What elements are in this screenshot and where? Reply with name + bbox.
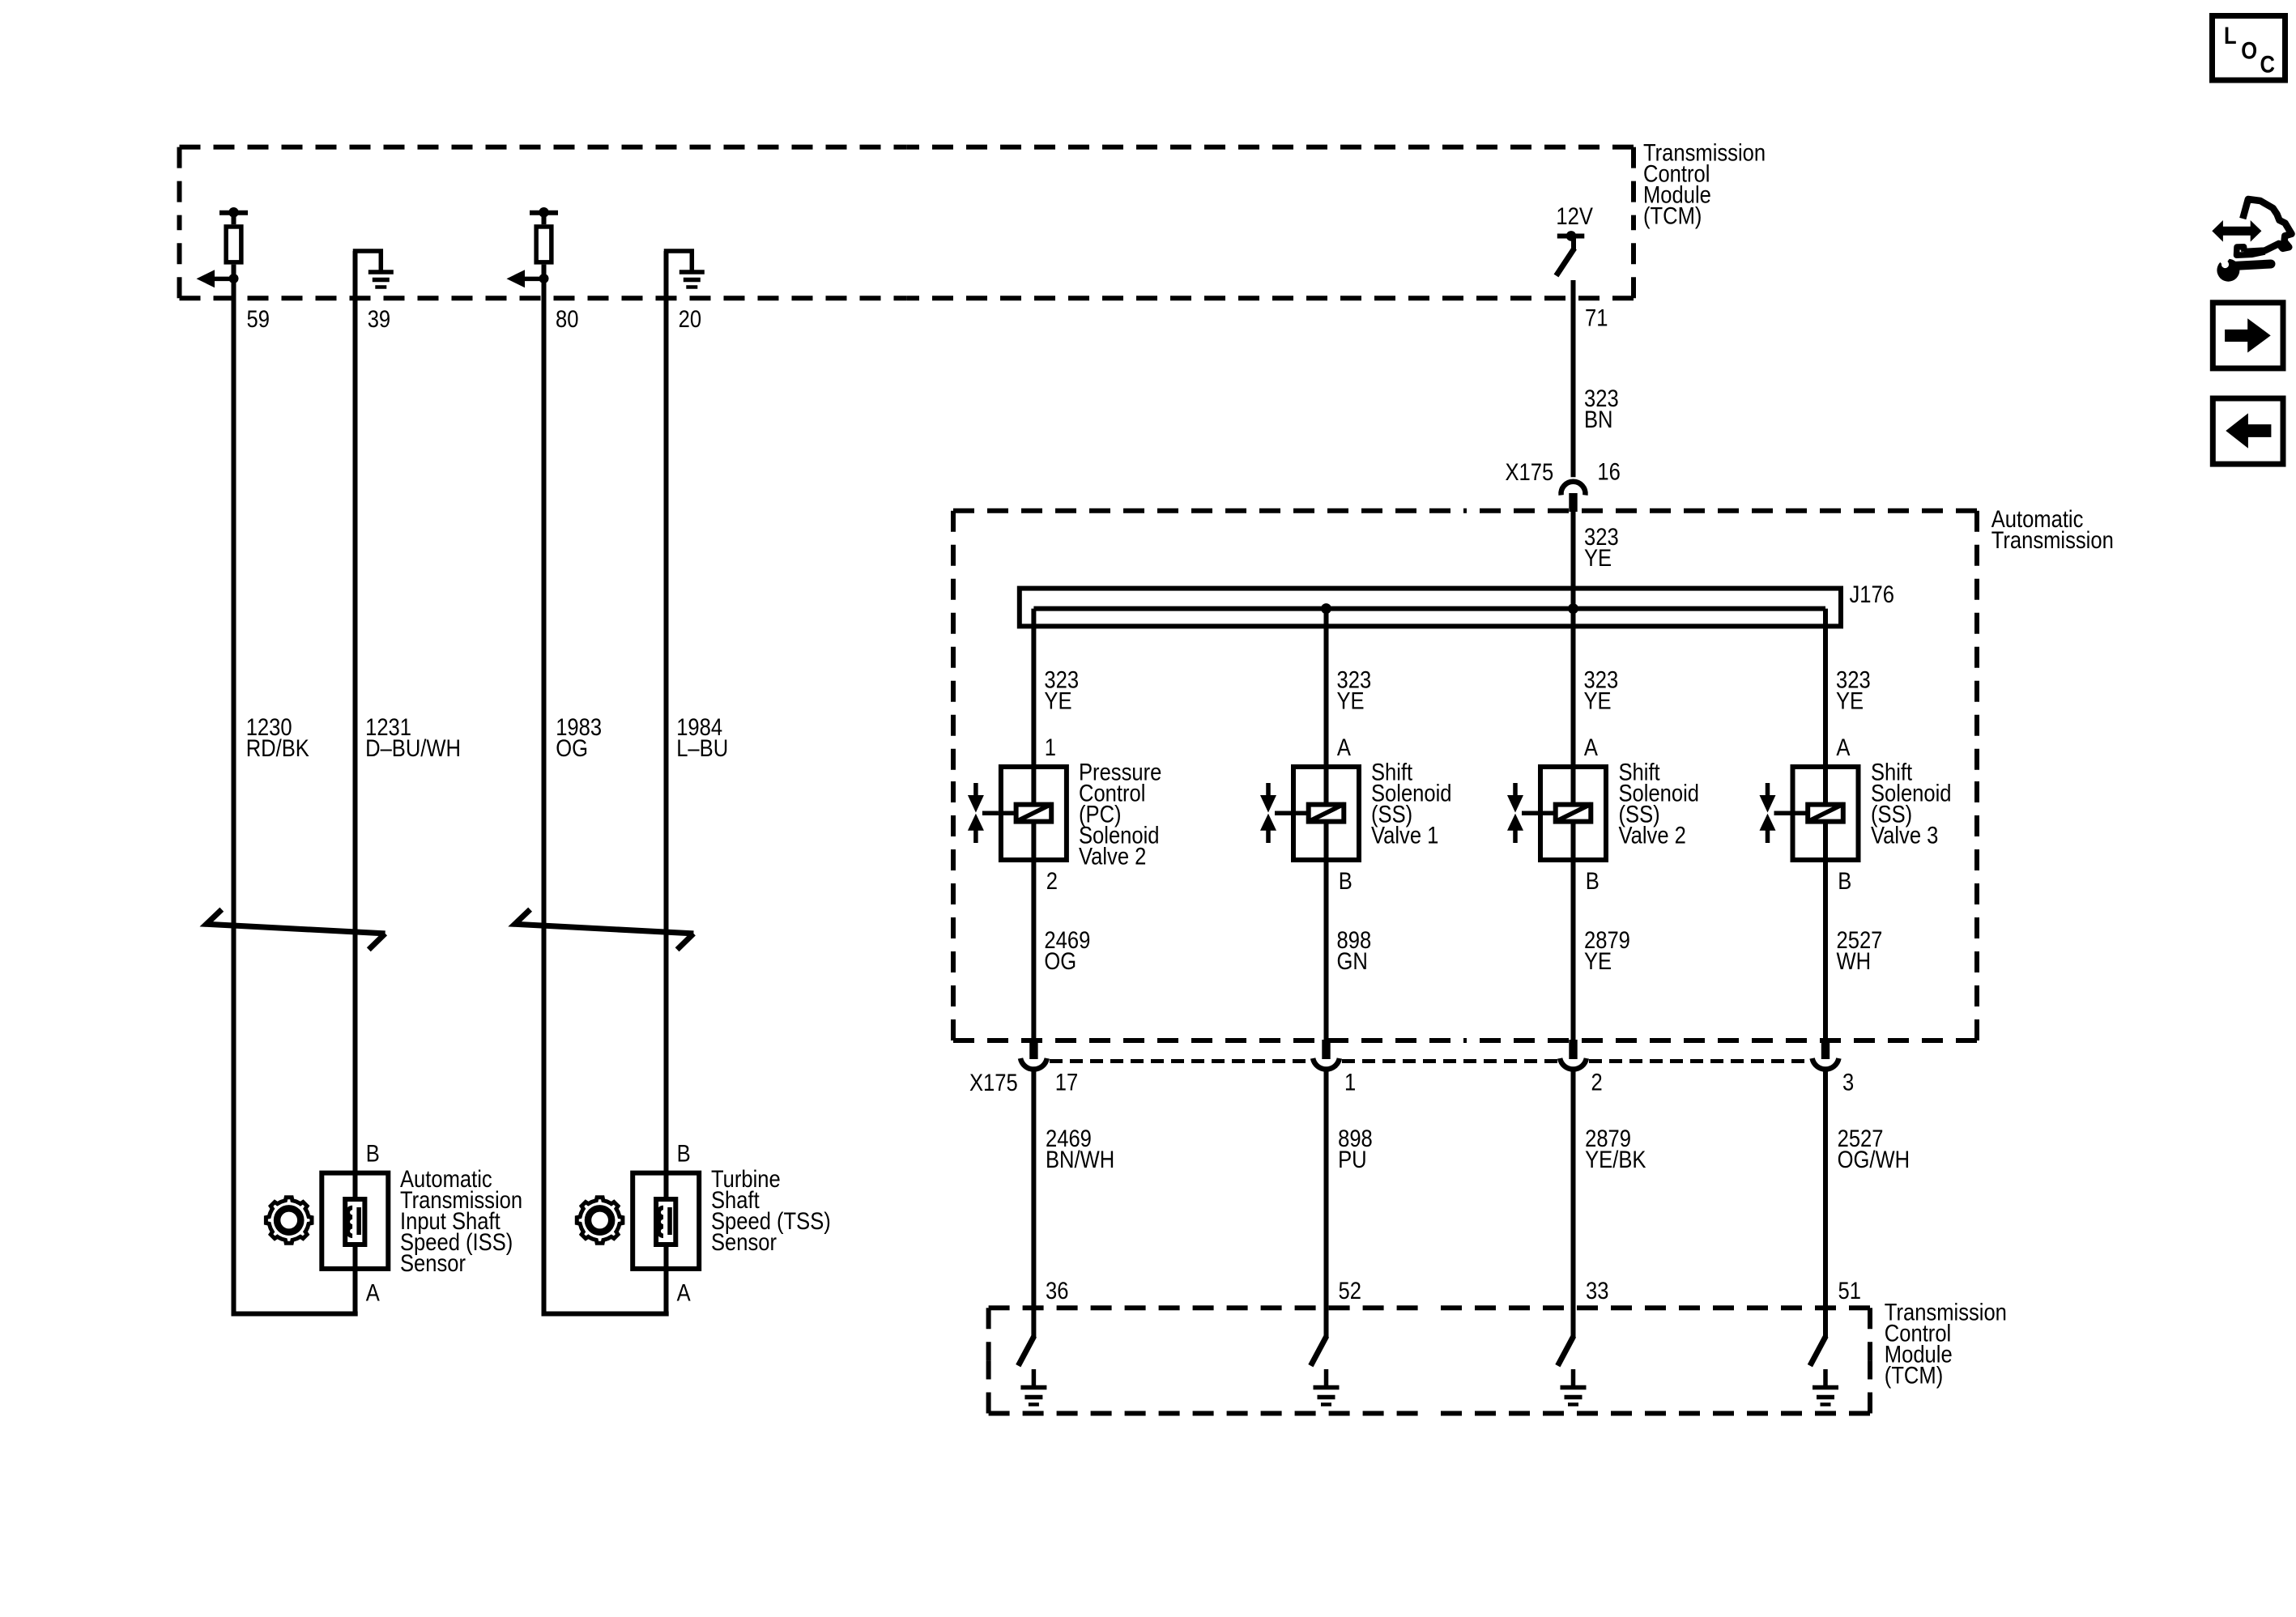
- wire label 1231 D-BU/WH: [365, 713, 461, 761]
- wire label 1983 OG: [556, 713, 602, 761]
- solenoid SS2 body: [1540, 767, 1606, 860]
- pin A SS2: [1584, 734, 1599, 761]
- pin 80: [556, 306, 578, 333]
- ground G-pin20 bar3: [686, 285, 697, 289]
- wire 323 YE drop SS3: [1823, 609, 1828, 1040]
- valve SS3 arrow stem bottom: [1766, 830, 1770, 843]
- solenoid PC-sol coil box: [1016, 805, 1052, 822]
- wire label 323 YE PC-sol: [1044, 666, 1079, 714]
- solenoid SS1 coil box: [1309, 805, 1344, 822]
- connector line X175 a: [1050, 1059, 1310, 1063]
- sensor TSS element box: [656, 1199, 675, 1245]
- solenoid SS3 coil stub: [1791, 811, 1806, 815]
- splice J176 bus: [1033, 606, 1825, 611]
- wire label 1230 RD/BK: [246, 713, 310, 761]
- wire label 2469 BN/WH: [1046, 1126, 1114, 1173]
- sensor TSS body: [633, 1173, 699, 1269]
- svg-text:A: A: [1836, 734, 1851, 761]
- pin A SS1: [1337, 734, 1352, 761]
- ground stem LS3: [1571, 1369, 1576, 1386]
- label SS2: [1619, 759, 1700, 849]
- ground stem LS1: [1032, 1369, 1037, 1386]
- sensor ISS core bar: [356, 1207, 361, 1235]
- solenoid PC-sol coil stub: [999, 811, 1014, 815]
- node 12V: [1556, 202, 1593, 229]
- svg-text:B: B: [1339, 867, 1352, 894]
- sensor ISS gear: [266, 1198, 312, 1244]
- svg-text:71: 71: [1585, 304, 1608, 331]
- pin 2 PC-sol: [1046, 867, 1058, 894]
- wire label 323 YE (feed): [1584, 523, 1619, 571]
- switch S1 stub: [1571, 238, 1576, 250]
- ground LS4 bar1: [1813, 1385, 1838, 1390]
- valve SS3 arrow down: [1760, 795, 1776, 813]
- pin 71: [1585, 304, 1608, 331]
- svg-text:33: 33: [1586, 1278, 1608, 1304]
- ground LS2 bar3: [1321, 1402, 1331, 1406]
- Automatic Transmission module outline: [953, 509, 1465, 513]
- ground LS4 bar2: [1817, 1395, 1834, 1400]
- switch S1 terminal bar: [1557, 234, 1585, 239]
- icon LOC: [2213, 16, 2285, 81]
- sensor ISS coil: [347, 1207, 352, 1236]
- pin 17: [1055, 1069, 1078, 1096]
- resistor R-pin80 top rail: [530, 211, 558, 215]
- wire 898 PU: [1324, 1070, 1329, 1338]
- solenoid SS3 coil box: [1808, 805, 1843, 822]
- wire 2527 OG/WH: [1823, 1070, 1828, 1338]
- svg-text:1: 1: [1344, 1069, 1356, 1096]
- wire label 2879 YE/BK: [1585, 1126, 1646, 1173]
- wire R-pin59 arrow stub: [215, 277, 234, 282]
- valve PC-sol arrow stem top: [973, 783, 978, 796]
- svg-text:O: O: [2241, 37, 2257, 64]
- valve SS2 link: [1522, 811, 1538, 815]
- label SS3: [1871, 759, 1952, 849]
- solenoid PC-sol body: [1001, 767, 1067, 860]
- sensor ISS body: [322, 1173, 388, 1269]
- connector arc X175-17: [1020, 1058, 1047, 1070]
- valve PC-sol arrow down: [968, 795, 984, 813]
- pin 39: [368, 306, 390, 333]
- pin A SS3: [1836, 734, 1851, 761]
- solenoid PC-sol coil diagonal: [1016, 804, 1052, 822]
- icon arrow next: [2213, 303, 2283, 368]
- switch S1 blade: [1557, 249, 1575, 276]
- solenoid SS1 body: [1293, 767, 1359, 860]
- ground G-pin39 bar2: [373, 278, 390, 283]
- pin 33: [1586, 1278, 1608, 1304]
- wire label 2879 YE: [1584, 927, 1630, 975]
- wire label 898 PU: [1338, 1126, 1373, 1173]
- wire label 2527 WH: [1837, 927, 1883, 975]
- TCM module outline (top): [180, 145, 907, 150]
- pin 3: [1842, 1069, 1854, 1096]
- valve SS2 arrow down: [1507, 795, 1523, 813]
- wire R-pin80 resistor top stub: [542, 213, 547, 225]
- wire label 323 YE SS1: [1337, 666, 1372, 714]
- ground LS1 bar2: [1024, 1395, 1042, 1400]
- svg-text:17: 17: [1055, 1069, 1078, 1096]
- junction R-pin59: [229, 274, 239, 283]
- valve PC-sol arrow stem bottom: [973, 830, 978, 843]
- svg-text:59: 59: [247, 306, 270, 333]
- switch S1 terminal dot: [1566, 231, 1577, 241]
- svg-text:16: 16: [1597, 458, 1620, 485]
- junction J176 tap 3: [1568, 603, 1578, 614]
- svg-text:39: 39: [368, 306, 390, 333]
- valve SS3 arrow up: [1760, 814, 1776, 831]
- connector pin X175-2: [1569, 1040, 1577, 1059]
- valve SS2 arrow up: [1507, 814, 1523, 831]
- connector pin X175-3: [1821, 1040, 1830, 1059]
- svg-text:898GN: 898GN: [1337, 927, 1372, 975]
- svg-text:20: 20: [679, 306, 701, 333]
- connector line X175 c: [1589, 1059, 1810, 1063]
- pin 20: [679, 306, 701, 333]
- wire TSS high side: [664, 251, 669, 1314]
- wire 323 BN (pin71 to X175): [1571, 280, 1576, 477]
- solenoid SS3 coil diagonal: [1808, 804, 1844, 822]
- ground LS1 bar3: [1029, 1402, 1039, 1406]
- icon arrow previous: [2213, 398, 2283, 464]
- node dot R-pin80 top: [539, 207, 549, 218]
- resistor R-pin59 top rail: [219, 211, 248, 215]
- signal arrow R-pin80: [507, 270, 526, 287]
- wire R-pin80 resistor bottom stub: [542, 265, 547, 279]
- svg-text:B: B: [1838, 867, 1851, 894]
- splice pack J176 outline: [1020, 589, 1841, 627]
- icon harness service: [2212, 220, 2261, 242]
- wire label 898 GN: [1337, 927, 1372, 975]
- wire 323 YE drop PC-sol: [1031, 609, 1036, 1040]
- svg-text:A: A: [677, 1279, 692, 1306]
- pin 59: [247, 306, 270, 333]
- svg-text:36: 36: [1046, 1278, 1068, 1304]
- svg-text:A: A: [1337, 734, 1352, 761]
- svg-text:1: 1: [1045, 734, 1056, 761]
- sensor TSS core bar: [667, 1207, 672, 1235]
- resistor R-pin80 body: [536, 227, 552, 262]
- label J176: [1850, 581, 1894, 607]
- sensor TSS gear: [577, 1198, 623, 1244]
- ground G-pin20 bar1: [679, 270, 705, 274]
- ground G-pin39 bar3: [375, 285, 386, 289]
- svg-text:2: 2: [1591, 1069, 1603, 1096]
- pin B ISS: [366, 1140, 380, 1167]
- svg-text:J176: J176: [1850, 581, 1894, 607]
- switch LS2 blade: [1310, 1336, 1327, 1366]
- valve SS3 link: [1774, 811, 1791, 815]
- valve SS1 arrow stem bottom: [1266, 830, 1271, 843]
- label PC-sol: [1079, 759, 1161, 870]
- svg-text:B: B: [677, 1140, 691, 1167]
- pin B SS3: [1838, 867, 1851, 894]
- svg-text:A: A: [1584, 734, 1599, 761]
- wire label 323 YE SS2: [1584, 666, 1619, 714]
- connector pin X175-1: [1322, 1040, 1330, 1059]
- label SS1: [1371, 759, 1452, 849]
- valve PC-sol link: [982, 811, 999, 815]
- connector pin X175-16: [1569, 493, 1577, 512]
- wire 2879 YE/BK: [1571, 1070, 1576, 1338]
- svg-text:L: L: [2224, 23, 2237, 49]
- svg-text:51: 51: [1838, 1278, 1861, 1304]
- valve SS3 arrow stem top: [1766, 783, 1770, 796]
- node dot R-pin59 top: [228, 207, 239, 218]
- solenoid SS2 coil stub: [1538, 811, 1553, 815]
- wire R-pin80 arrow stub: [525, 277, 544, 282]
- valve SS1 link: [1275, 811, 1291, 815]
- ground LS3 bar3: [1568, 1402, 1578, 1406]
- svg-text:X175: X175: [1506, 458, 1554, 485]
- svg-text:1984L–BU: 1984L–BU: [676, 713, 728, 761]
- label ISS: [400, 1166, 522, 1277]
- wire R-pin59 resistor bottom stub: [232, 265, 236, 279]
- svg-text:3: 3: [1842, 1069, 1854, 1096]
- wire label 323 YE SS3: [1836, 666, 1871, 714]
- wire label 2469 OG: [1044, 927, 1090, 975]
- twisted pair mark ISS: [207, 909, 386, 950]
- svg-text:C: C: [2260, 51, 2276, 78]
- twisted pair mark TSS: [515, 909, 694, 950]
- wire ISS high side: [353, 251, 358, 1314]
- sensor ISS element box: [345, 1199, 364, 1245]
- solenoid SS2 coil box: [1556, 805, 1591, 822]
- wire label 1984 L-BU: [676, 713, 728, 761]
- connector pin X175-17: [1029, 1040, 1037, 1059]
- valve SS1 arrow stem top: [1266, 783, 1271, 796]
- wire 2469 BN/WH: [1031, 1070, 1036, 1338]
- valve SS1 arrow down: [1260, 795, 1276, 813]
- ground LS4 bar3: [1821, 1402, 1831, 1406]
- valve SS2 arrow stem bottom: [1513, 830, 1518, 843]
- label TSS: [711, 1166, 831, 1256]
- wire 323 YE (X175 to J176): [1571, 510, 1576, 609]
- junction J176 tap 2: [1321, 603, 1331, 614]
- ground stem LS2: [1324, 1369, 1329, 1386]
- ground LS1 bar1: [1020, 1385, 1046, 1390]
- svg-text:2: 2: [1046, 867, 1058, 894]
- switch LS4 blade: [1810, 1336, 1826, 1366]
- connector arc X175-3: [1813, 1058, 1839, 1070]
- pin 51: [1838, 1278, 1861, 1304]
- ground G-pin39 bar1: [368, 270, 394, 274]
- svg-text:80: 80: [556, 306, 578, 333]
- resistor R-pin59 body: [226, 227, 241, 262]
- pin A TSS: [677, 1279, 692, 1306]
- wire 323 YE drop SS1: [1324, 609, 1329, 1040]
- wire label 323 BN: [1584, 385, 1619, 433]
- svg-text:52: 52: [1339, 1278, 1361, 1304]
- svg-text:A: A: [366, 1279, 381, 1306]
- connector X175 (bottom): [969, 1069, 1018, 1096]
- svg-text:12V: 12V: [1556, 202, 1593, 229]
- ground LS3 bar1: [1561, 1385, 1587, 1390]
- ground LS2 bar1: [1314, 1385, 1340, 1390]
- solenoid SS1 coil stub: [1291, 811, 1306, 815]
- pin B SS2: [1586, 867, 1600, 894]
- connector arc X175-2: [1560, 1058, 1587, 1070]
- pin B TSS: [677, 1140, 691, 1167]
- wire to ground G-pin39: [356, 251, 381, 299]
- wire R-pin59 resistor top stub: [232, 213, 236, 225]
- label Automatic Transmission: [1991, 505, 2114, 553]
- ground stem LS4: [1823, 1369, 1828, 1386]
- pin 52: [1339, 1278, 1361, 1304]
- solenoid SS1 coil diagonal: [1308, 804, 1344, 822]
- svg-text:B: B: [366, 1140, 380, 1167]
- svg-text:B: B: [1586, 867, 1600, 894]
- pin 1 PC-sol: [1045, 734, 1056, 761]
- wire 323 YE drop SS2: [1571, 609, 1576, 1040]
- solenoid SS3 body: [1793, 767, 1859, 860]
- connector arc X175-1: [1313, 1058, 1340, 1070]
- pin B SS1: [1339, 867, 1352, 894]
- label TCM (top): [1643, 139, 1766, 229]
- pin 2: [1591, 1069, 1603, 1096]
- signal arrow R-pin59: [197, 270, 215, 287]
- pin 16: [1597, 458, 1620, 485]
- svg-text:X175: X175: [969, 1069, 1018, 1096]
- valve PC-sol arrow up: [968, 814, 984, 831]
- wire loop ISS low side: [234, 279, 358, 1314]
- connector line X175 b: [1342, 1059, 1557, 1063]
- wire loop TSS low side: [544, 279, 669, 1314]
- connector arc X175-16: [1561, 482, 1586, 496]
- pin 1: [1344, 1069, 1356, 1096]
- valve SS1 arrow up: [1260, 814, 1276, 831]
- solenoid SS2 coil diagonal: [1555, 804, 1591, 822]
- ground LS3 bar2: [1565, 1395, 1582, 1400]
- sensor TSS coil: [658, 1207, 663, 1236]
- wire label 2527 OG/WH: [1838, 1126, 1910, 1173]
- wire to ground G-pin20: [667, 251, 692, 299]
- valve SS2 arrow stem top: [1513, 783, 1518, 796]
- label TCM (bottom): [1885, 1299, 2007, 1389]
- switch LS3 blade: [1557, 1336, 1574, 1366]
- ground G-pin20 bar2: [684, 278, 701, 283]
- ground LS2 bar2: [1318, 1395, 1335, 1400]
- TCM module outline (bottom): [989, 1305, 1429, 1310]
- connector X175 (top): [1506, 458, 1554, 485]
- switch LS1 blade: [1018, 1336, 1034, 1366]
- junction R-pin80: [539, 274, 549, 283]
- pin 36: [1046, 1278, 1068, 1304]
- pin A ISS: [366, 1279, 381, 1306]
